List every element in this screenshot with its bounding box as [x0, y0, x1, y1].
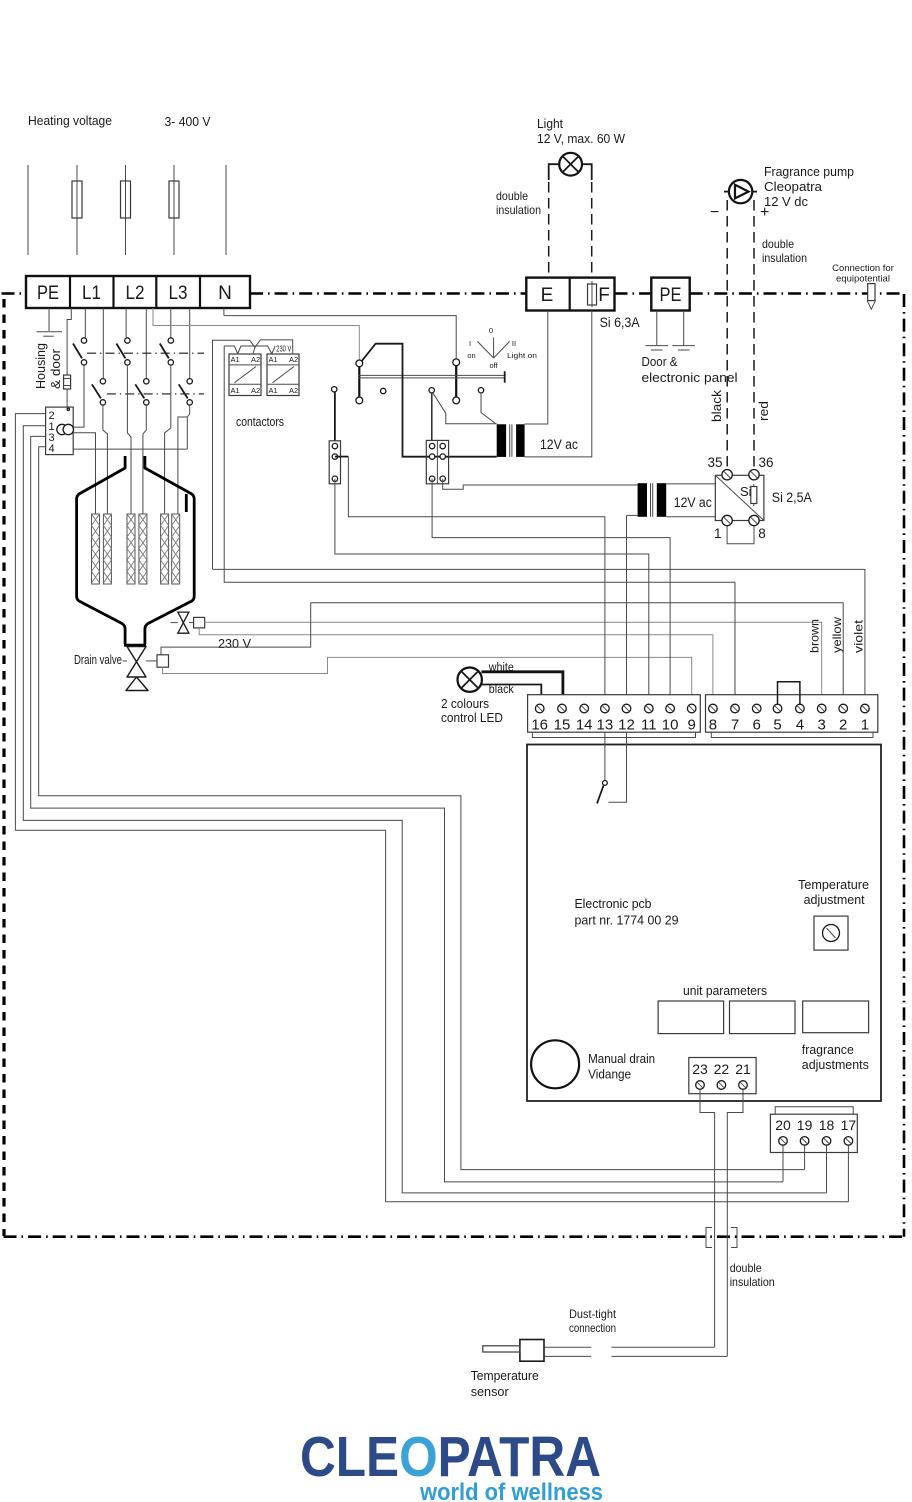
svg-text:12 V, max. 60 W: 12 V, max. 60 W — [537, 131, 626, 146]
wire S1b to heater E3 — [127, 365, 131, 514]
wire T2 secondary bottom to Si box — [666, 516, 715, 518]
svg-text:connection: connection — [569, 1321, 616, 1335]
svg-text:yellow: yellow — [830, 617, 844, 653]
linkage dash-dot row2 — [107, 393, 204, 395]
svg-text:A1: A1 — [231, 386, 240, 395]
wire L2 to switch pole Q1 — [153, 308, 359, 360]
svg-text:Si 6,3A: Si 6,3A — [600, 315, 640, 330]
heater element E2 — [103, 514, 111, 584]
svg-text:brown: brown — [808, 619, 822, 653]
current transformer circles — [57, 424, 74, 434]
svg-text:1: 1 — [861, 717, 869, 734]
svg-text:230 V: 230 V — [276, 345, 291, 354]
wire lamp right (double insulated, dashed) to F — [591, 182, 593, 277]
screw terminal 14 — [580, 704, 589, 713]
terminal box E/F — [526, 278, 614, 311]
wire contact A to T1 primary top — [433, 393, 497, 424]
wire X2 right bottom pin to T2 primary top — [443, 479, 638, 490]
power switch pole Q2 — [453, 359, 460, 404]
screw terminal 8 (Si) — [749, 515, 759, 525]
screw terminal 8 — [709, 704, 718, 713]
manual drain button — [531, 1040, 579, 1088]
svg-text:A1: A1 — [269, 355, 278, 364]
wire contact B to T1 primary top — [481, 393, 496, 424]
contact (unused) row 390 #1 — [381, 388, 386, 393]
wire pin4b - terminal 19 bundle — [39, 447, 805, 1170]
svg-text:Electronic pcb: Electronic pcb — [575, 896, 652, 911]
svg-text:Fragrance pump: Fragrance pump — [764, 164, 854, 179]
boundary dash-dot right edge — [903, 294, 906, 1237]
wire X2 left bottom pin to terminal 10 — [432, 479, 670, 695]
wire L1 to switch S2a — [102, 308, 104, 378]
wire Q1 to transformer T1 primary — [362, 344, 497, 457]
wire E to T1 secondary top — [525, 311, 548, 425]
fuse cartridge symbol in Si box — [751, 484, 757, 506]
svg-text:Temperature: Temperature — [471, 1368, 539, 1383]
svg-text:12V ac: 12V ac — [540, 437, 578, 452]
fragrance pump symbol — [724, 180, 757, 203]
svg-text:Heating voltage: Heating voltage — [28, 113, 112, 128]
svg-text:contactors: contactors — [236, 415, 284, 429]
svg-text:Drain valve: Drain valve — [74, 653, 122, 667]
wire L2 to switch S1b — [125, 308, 127, 337]
screw terminal 20 — [779, 1137, 788, 1146]
boundary crossing bracket right — [731, 1228, 737, 1248]
screw terminal 4 — [796, 704, 805, 713]
temperature sensor — [483, 1340, 544, 1362]
svg-text:electronic panel: electronic panel — [642, 370, 738, 385]
svg-text:A1: A1 — [269, 386, 278, 395]
stub left of drain valve — [123, 660, 128, 662]
svg-text:10: 10 — [662, 717, 679, 734]
svg-text:Temperature: Temperature — [798, 877, 869, 892]
wire coil feeder A / terminal 1 feeder — [213, 340, 293, 570]
wire L2 supply drop — [125, 165, 127, 255]
screw terminal 16 — [535, 704, 544, 713]
wire L3 to switch S2c — [189, 308, 191, 378]
wire L1 supply drop — [76, 165, 78, 255]
wire S2b to heater E4 — [143, 405, 146, 514]
screw terminal 7 — [731, 704, 740, 713]
svg-text:E: E — [541, 285, 554, 306]
svg-text:L1: L1 — [82, 283, 101, 304]
svg-text:12: 12 — [618, 717, 635, 734]
contactor K1 coil — [229, 354, 261, 396]
heater element E6 — [172, 514, 180, 584]
wire X1 bottom pin to terminal 11 — [335, 479, 649, 695]
svg-text:16: 16 — [531, 717, 548, 734]
terminal box PE (door) — [651, 278, 689, 311]
wire pin2 - terminal 17 bundle — [15, 414, 848, 1202]
fuse F2 on L2 — [121, 181, 131, 218]
terminal strip 16..9 — [528, 695, 701, 733]
linkage dash-dot row1 — [87, 352, 204, 354]
wire sensor lead 2 — [544, 1355, 727, 1357]
unit parameter box 2 — [730, 1001, 796, 1034]
svg-text:8: 8 — [758, 526, 766, 541]
svg-text:3- 400 V: 3- 400 V — [165, 114, 211, 129]
svg-text:adjustment: adjustment — [804, 892, 865, 907]
equipotential bonding symbol — [867, 284, 875, 310]
svg-text:black: black — [710, 389, 724, 422]
strip bracket under 8..1 — [711, 732, 873, 737]
svg-text:equipotential: equipotential — [836, 274, 890, 285]
svg-text:L3: L3 — [169, 283, 188, 304]
aux terminal block X2 — [426, 440, 448, 483]
wire pin1 - terminal 18 bundle — [23, 426, 826, 1193]
ground symbol right under door PE — [673, 346, 696, 350]
switch contact S1a — [73, 338, 87, 365]
svg-text:2 colours: 2 colours — [441, 696, 489, 711]
switch contact S2c — [179, 379, 193, 406]
wire pump black (dashed) to Si 35 — [726, 200, 728, 470]
terminal box 20/19/18/17 — [770, 1114, 857, 1152]
screw terminal 1 (Si) — [722, 515, 732, 525]
svg-text:18: 18 — [819, 1117, 835, 1133]
svg-text:1: 1 — [714, 526, 722, 541]
drain valve symbol — [126, 647, 157, 691]
heater element E5 — [161, 514, 169, 584]
screw terminal 2 — [839, 704, 848, 713]
transformer T2 12V ac — [638, 483, 667, 517]
wire F to T1 secondary bottom — [525, 311, 592, 457]
wire off-contact to aux terminal X1 — [334, 392, 336, 441]
contactor K2 coil — [267, 354, 299, 396]
ground symbol housing — [37, 332, 63, 337]
screw terminal 12 — [622, 704, 631, 713]
svg-text:double: double — [730, 1261, 762, 1275]
screw terminal 1 — [861, 704, 870, 713]
electronic pcb outline — [527, 745, 881, 1102]
svg-text:insulation: insulation — [762, 251, 807, 265]
wire drain valve to terminal 2 — [161, 603, 843, 695]
wire X1 mid pin to terminal 13 — [348, 457, 605, 695]
boundary dash-dot top edge — [250, 292, 904, 295]
wire sensor lead 1 — [544, 1346, 715, 1348]
fuse F1 on L1 — [72, 181, 82, 218]
fragrance adjustment box — [803, 1001, 869, 1033]
screw terminal 11 — [645, 704, 654, 713]
wire N drop — [223, 308, 225, 316]
screw terminal 36 — [749, 470, 759, 480]
wire S1a to current transformer — [73, 365, 84, 427]
fuse F3 on L3 — [169, 181, 179, 218]
svg-text:Vidange: Vidange — [588, 1067, 631, 1082]
svg-text:20: 20 — [775, 1117, 791, 1133]
svg-text:Cleopatra: Cleopatra — [764, 179, 823, 194]
svg-text:A1: A1 — [231, 355, 240, 364]
screw terminal 19 — [800, 1137, 809, 1146]
wire contact A to aux terminal X2 — [431, 393, 433, 441]
svg-text:23: 23 — [692, 1061, 708, 1077]
svg-text:Light on: Light on — [507, 351, 537, 360]
svg-text:violet: violet — [852, 619, 866, 653]
svg-text:6: 6 — [753, 717, 761, 734]
wire drain valve to terminal 9 — [163, 657, 692, 694]
screw terminal 22 — [717, 1081, 726, 1090]
svg-text:17: 17 — [841, 1117, 857, 1133]
screw terminal 17 — [844, 1137, 853, 1146]
wire PE supply drop — [27, 165, 29, 255]
wire terminal 20 drop — [782, 1145, 784, 1182]
switch contact S1b — [116, 338, 130, 365]
svg-text:Light: Light — [537, 116, 563, 131]
wire T2 secondary top to Si box — [666, 483, 715, 485]
svg-text:3: 3 — [818, 717, 826, 734]
wire S2c down to control box pin4 junction — [187, 405, 189, 449]
wire PE door right drop — [683, 311, 685, 346]
wire N to switch pole Q2 — [224, 316, 456, 359]
svg-text:Housing: Housing — [33, 343, 48, 389]
svg-text:19: 19 — [797, 1117, 813, 1133]
svg-text:0: 0 — [489, 326, 493, 335]
wire LED black to terminal 16 — [482, 685, 542, 695]
wire terminal 19 drop — [804, 1145, 806, 1169]
wire feeder A to terminal 1 — [213, 569, 865, 694]
wire L2 to switch S2b — [145, 308, 147, 378]
svg-text:22: 22 — [714, 1061, 730, 1077]
screw terminal 15 — [558, 704, 567, 713]
screw terminal 10 — [666, 704, 675, 713]
wire lamp left (double insulated, dashed) to E — [548, 182, 550, 277]
svg-text:13: 13 — [597, 717, 614, 734]
svg-text:on: on — [467, 351, 475, 360]
wire lamp left lead — [549, 164, 560, 180]
ground symbol left under door PE — [646, 346, 669, 350]
screw terminal 21 — [739, 1081, 748, 1090]
switch contact S1c — [160, 338, 174, 365]
screw terminal 18 — [822, 1137, 831, 1146]
wire terminal 17 drop — [847, 1145, 849, 1202]
svg-text:double: double — [496, 189, 528, 203]
contact B — [478, 388, 483, 393]
svg-text:4: 4 — [796, 717, 804, 734]
wire K1 A2 tap — [253, 347, 255, 354]
screw terminal 6 — [752, 704, 761, 713]
power switch pole Q1 — [356, 360, 363, 404]
svg-text:L2: L2 — [126, 283, 145, 304]
svg-text:14: 14 — [576, 717, 593, 734]
svg-text:12V ac: 12V ac — [674, 495, 712, 510]
svg-text:7: 7 — [731, 717, 739, 734]
2 colours control LED — [458, 668, 482, 692]
svg-text:2: 2 — [839, 717, 847, 734]
svg-text:+: + — [760, 204, 769, 221]
cable bracket above 20..17 — [775, 1107, 853, 1115]
heater feed from control box — [73, 433, 95, 514]
svg-text:Manual drain: Manual drain — [588, 1051, 655, 1066]
svg-text:36: 36 — [758, 455, 773, 470]
svg-text:Si 2,5A: Si 2,5A — [772, 490, 812, 505]
wire 230V valve to terminal 8 — [199, 628, 713, 695]
svg-text:off: off — [489, 361, 498, 370]
svg-text:A2: A2 — [289, 386, 298, 395]
lamp 12V 60W — [559, 153, 582, 176]
fuse box Si 2,5A — [715, 475, 764, 520]
svg-text:15: 15 — [554, 717, 571, 734]
svg-text:Connection for: Connection for — [832, 263, 894, 274]
wire 230V valve to terminal 3 — [205, 622, 822, 695]
svg-text:black: black — [489, 684, 514, 696]
svg-text:Door &: Door & — [642, 354, 678, 369]
wire pin4 to switch S2c — [73, 448, 187, 450]
transformer T1 12V ac — [497, 424, 525, 457]
screw terminal 3 — [817, 704, 826, 713]
wire PE to housing ground — [48, 308, 50, 331]
terminal strip 8..1 — [706, 695, 878, 733]
wire LED white to terminal 15 — [482, 672, 563, 695]
svg-text:unit parameters: unit parameters — [683, 983, 767, 998]
screw terminal 9 — [687, 704, 696, 713]
svg-text:& door: & door — [48, 348, 63, 389]
switch linkage bar — [358, 371, 504, 382]
svg-text:5: 5 — [773, 717, 781, 734]
terminal block PE/L1/L2/L3/N — [26, 276, 250, 308]
wire pump red (dashed) to Si 36 — [753, 200, 755, 470]
wire coil feeder B / terminal 7 feeder — [224, 346, 735, 695]
wire coil feeder B zigzag to K1/K2 A1 — [224, 346, 275, 354]
wire fuse to control box — [66, 389, 68, 407]
svg-text:insulation: insulation — [730, 1275, 775, 1289]
drain valve actuator box — [157, 655, 169, 667]
control box terminals 2-1-3-4 — [46, 407, 74, 455]
svg-text:35: 35 — [707, 455, 722, 470]
wire stub tank to 230V valve — [171, 622, 178, 624]
svg-text:4: 4 — [48, 443, 54, 455]
svg-text:12 V dc: 12 V dc — [764, 194, 808, 209]
svg-text:I: I — [469, 339, 471, 348]
wire S1c to heater E5 — [165, 365, 171, 514]
svg-text:A2: A2 — [251, 355, 260, 364]
wire N supply drop — [225, 165, 227, 255]
contact off-position — [332, 387, 337, 392]
terminal box 23/22/21 — [689, 1058, 756, 1094]
wire L1 to control fuse — [67, 308, 71, 375]
pcb input switch (from 13/12) — [597, 732, 627, 803]
rotary switch position symbol — [478, 338, 510, 359]
tank level sensor stub — [185, 494, 188, 512]
svg-text:insulation: insulation — [496, 203, 541, 217]
svg-text:PE: PE — [37, 283, 59, 304]
boundary dash-dot bottom edge — [4, 1235, 905, 1238]
wire terminal 18 drop — [826, 1145, 828, 1193]
wire L3 supply drop — [173, 165, 175, 255]
svg-text:21: 21 — [735, 1061, 751, 1077]
boundary stub left of PE — [2, 292, 22, 295]
svg-text:fragrance: fragrance — [802, 1042, 854, 1057]
temperature adjustment knob — [814, 916, 848, 950]
svg-text:F: F — [598, 285, 610, 306]
steam generator tank outline — [77, 456, 195, 645]
wire terminal 23 to sensor — [700, 1089, 715, 1347]
switch contact S2a — [92, 379, 106, 406]
screw terminal 13 — [601, 704, 610, 713]
wire S2a to heater E2 — [103, 405, 108, 514]
svg-text:double: double — [762, 237, 794, 251]
svg-text:A2: A2 — [289, 355, 298, 364]
screw terminal 23 — [696, 1081, 705, 1090]
fuse Si 6,3A symbol in F cell — [588, 281, 597, 307]
contact A — [429, 388, 434, 393]
unit parameter box 1 — [658, 1001, 724, 1034]
heater element E3 — [127, 514, 135, 584]
boundary dashed left edge — [2, 299, 5, 1236]
heater element E1 — [92, 514, 100, 584]
wire S2c branch to heater E6 — [178, 417, 187, 514]
svg-text:Si: Si — [740, 484, 752, 499]
svg-text:adjustments: adjustments — [802, 1057, 869, 1072]
svg-text:230 V: 230 V — [218, 636, 251, 651]
fuse housing/door circuit — [64, 375, 71, 389]
wire lamp right lead — [582, 164, 592, 180]
wire pin3 - terminal 20 bundle — [31, 436, 783, 1182]
svg-text:red: red — [757, 401, 771, 421]
svg-text:sensor: sensor — [471, 1384, 510, 1399]
wire X1 mid pin stub — [335, 456, 349, 458]
svg-text:II: II — [512, 339, 516, 348]
bridge terminals 5-4 — [778, 682, 800, 704]
wire Si link 1-8 — [727, 526, 754, 544]
svg-text:world of wellness: world of wellness — [419, 1479, 603, 1502]
inlet/outlet valve 230V — [178, 612, 194, 633]
svg-text:PE: PE — [660, 285, 682, 306]
screw terminal 5 — [773, 704, 782, 713]
pin top entry control box — [67, 408, 69, 410]
screw terminal 35 — [722, 470, 732, 480]
svg-text:N: N — [218, 283, 232, 304]
wire L1 to switch S1a — [84, 308, 86, 337]
svg-text:−: − — [710, 204, 719, 221]
svg-text:A2: A2 — [251, 386, 260, 395]
switch contact S2b — [135, 379, 149, 406]
wire terminal 21 to sensor — [727, 1089, 743, 1356]
strip bracket under 16..9 — [532, 732, 695, 737]
wire PE door left drop — [656, 311, 658, 346]
valve actuator box (230V valve) — [194, 617, 205, 628]
svg-text:Dust-tight: Dust-tight — [569, 1307, 617, 1321]
wire T2 primary bottom stub — [627, 514, 638, 516]
boundary crossing bracket left — [706, 1228, 712, 1248]
svg-text:8: 8 — [709, 717, 717, 734]
svg-text:11: 11 — [641, 717, 657, 734]
aux terminal block X1 — [329, 441, 340, 484]
wire T2 primary bottom to terminal 12 — [626, 515, 628, 694]
svg-text:control LED: control LED — [441, 710, 503, 725]
wire L3 to switch S1c — [170, 308, 172, 337]
svg-text:9: 9 — [688, 717, 696, 734]
heater element E4 — [139, 514, 147, 584]
svg-text:part nr. 1774 00 29: part nr. 1774 00 29 — [575, 913, 679, 928]
